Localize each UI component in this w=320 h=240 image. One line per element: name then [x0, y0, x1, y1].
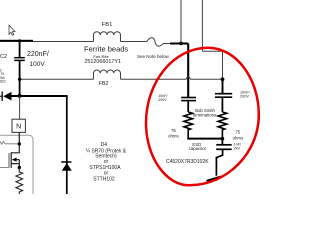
- svg-text:75: 75: [236, 130, 241, 135]
- svg-text:or: or: [104, 159, 109, 165]
- diode D4 triangle: [62, 163, 72, 171]
- svg-text:FB1: FB1: [102, 22, 113, 28]
- transistor Q1 drain lead: [11, 144, 19, 153]
- node top junction: [18, 39, 21, 42]
- wire S-squiggle: [147, 38, 163, 46]
- node junction A: [179, 42, 183, 46]
- inductor FB1: [94, 32, 121, 42]
- wire FB2 line left: [20, 78, 94, 80]
- wire squiggle to corner: [163, 43, 171, 45]
- svg-text:D4: D4: [101, 142, 108, 148]
- pin box N: [12, 119, 25, 132]
- transistor Q1 source lead: [11, 160, 19, 168]
- transistor Q1 body arrow: [12, 158, 17, 162]
- winding squiggle: [0, 141, 5, 144]
- mouse cursor: [9, 25, 15, 35]
- node source junction: [18, 166, 21, 169]
- svg-text:2kV: 2kV: [234, 146, 241, 150]
- diode D2 leads: [0, 95, 2, 97]
- svg-text:C4520X7R3D102K: C4520X7R3D102K: [166, 159, 209, 165]
- svg-text:STTH102: STTH102: [93, 176, 115, 182]
- svg-text:FB2: FB2: [99, 81, 109, 87]
- transistor Q1 gate bar: [8, 153, 10, 168]
- capacitor C2 lead bottom: [19, 61, 21, 96]
- resistor right 75 ohm: [218, 112, 227, 139]
- wire top thick segment: [0, 40, 33, 42]
- svg-text:75: 75: [171, 128, 176, 133]
- node diode junction: [18, 94, 22, 98]
- resistor source zigzag: [16, 168, 23, 195]
- svg-text:See Note below: See Note below: [137, 54, 170, 59]
- capacitor C2 plates: [14, 57, 25, 59]
- wire FB1 to squiggle: [121, 41, 148, 43]
- wire top right vertical: [201, 0, 203, 51]
- svg-text:ohms: ohms: [233, 135, 244, 140]
- module box outline: [0, 135, 33, 194]
- wire hop to node B: [190, 78, 222, 80]
- diode D2 triangle: [3, 92, 11, 101]
- capacitor C2 lead top: [19, 42, 21, 58]
- transistor Q1 channel bar: [10, 152, 12, 168]
- ground: [207, 176, 222, 180]
- wire up from junction A: [180, 0, 182, 43]
- svg-text:100V: 100V: [30, 61, 46, 68]
- wire bottom bracket: [187, 138, 222, 140]
- node FB2 left junction: [18, 78, 21, 81]
- svg-text:capacitor: capacitor: [189, 146, 207, 151]
- wire left cap to resistor: [187, 101, 189, 112]
- diode D2 cathode bar: [1, 92, 3, 102]
- resistor left 75 ohm: [184, 112, 193, 139]
- transistor Q1 gate lead: [0, 167, 9, 169]
- wire D4 vertical: [66, 96, 68, 194]
- wire top thin to FB1: [33, 41, 94, 43]
- wire down to node B: [222, 51, 224, 79]
- red highlight ellipse: [146, 48, 259, 186]
- svg-text:ohms: ohms: [168, 134, 179, 139]
- diode D4 cathode bar: [61, 161, 71, 163]
- wire right cap to resistor: [221, 98, 223, 112]
- capacitor ESD plates: [216, 144, 232, 146]
- capacitor right 10nF plates: [215, 93, 232, 95]
- wire left branch vertical: [187, 44, 189, 97]
- svg-text:200V: 200V: [158, 98, 167, 102]
- svg-text:N: N: [16, 124, 21, 131]
- wire diode to corner: [12, 95, 68, 97]
- wire jog right: [202, 50, 222, 52]
- wire thick to corner: [170, 42, 188, 44]
- inductor FB2: [94, 70, 121, 79]
- capacitor left 10nF top lead plates: [181, 97, 196, 99]
- svg-text:200V: 200V: [240, 95, 249, 99]
- svg-text:H102: H102: [0, 80, 6, 84]
- wire hop over vertical: [186, 77, 190, 79]
- svg-text:Ferrite beads: Ferrite beads: [84, 45, 128, 54]
- wire into N box: [19, 96, 21, 119]
- wire N box down: [18, 132, 20, 144]
- capacitor ESD lead: [221, 139, 223, 144]
- wire winding to drain node: [5, 143, 19, 145]
- svg-text:terminations: terminations: [193, 113, 216, 118]
- node bracket junction: [221, 137, 225, 141]
- node drain junction: [18, 142, 21, 145]
- wire ESD cap to ground: [216, 150, 222, 176]
- wire node B to right cap: [222, 79, 224, 93]
- svg-text:C2: C2: [0, 54, 7, 60]
- transistor Q1 body lead: [16, 159, 19, 161]
- wire FB2 to hop: [121, 78, 187, 80]
- svg-text:220nF/: 220nF/: [27, 51, 49, 58]
- svg-text:2512066017Y1: 2512066017Y1: [84, 59, 121, 65]
- node B junction: [221, 77, 225, 81]
